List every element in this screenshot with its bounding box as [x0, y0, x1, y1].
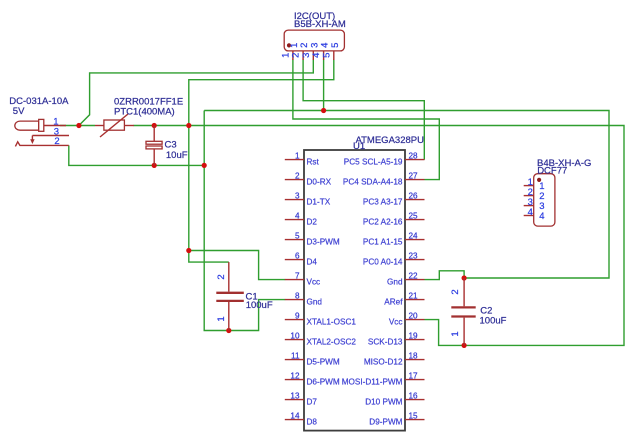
svg-text:5: 5: [295, 232, 300, 241]
U1 pin number 5: [295, 232, 300, 241]
U1 pin 27 stub (PC4 SDA-A4-18): [405, 179, 425, 181]
svg-text:15: 15: [409, 412, 419, 421]
junction VCC riser to U1 Vcc branch: [186, 248, 191, 253]
U1 pin number 13: [290, 392, 300, 401]
svg-text:D0-RX: D0-RX: [307, 178, 332, 187]
PTC1 value PTC1(400MA): [114, 106, 175, 117]
C2 pin number 2: [450, 289, 461, 294]
U1 pin label PC0 A0-14: [363, 258, 403, 267]
U1 pin number 16: [409, 392, 419, 401]
J3 inside pin number 4: [539, 211, 544, 222]
connector J2 I2C(OUT) B5B-XH-AM body: [284, 30, 344, 51]
IC U1 ATMEGA328PU body: [304, 150, 405, 431]
U1 pin label D9-PWM: [369, 418, 402, 427]
svg-text:24: 24: [409, 232, 419, 241]
svg-text:25: 25: [409, 212, 419, 221]
svg-text:1: 1: [216, 316, 227, 321]
U1 pin number 24: [409, 232, 419, 241]
J2 inside pin number 2: [299, 43, 310, 48]
svg-text:26: 26: [409, 192, 419, 201]
U1 pin 4 stub (D2): [285, 219, 304, 221]
U1 pin label Vcc: [307, 278, 321, 287]
J2 pin 1 stub: [292, 51, 294, 60]
wire net GND: I2C pin4 drop: [323, 60, 325, 111]
J3 pin 3 stub: [524, 205, 534, 207]
U1 pin 23 stub (PC0 A0-14): [405, 259, 425, 261]
U1 pin label Gnd: [387, 278, 403, 287]
U1 pin number 4: [295, 212, 300, 221]
svg-text:16: 16: [409, 392, 419, 401]
connector J3 B4B-XH-A-G DCF77 body: [534, 174, 555, 226]
svg-text:100uF: 100uF: [246, 300, 273, 311]
C3 value 10uF: [166, 150, 188, 161]
U1 pin 6 stub (D4): [285, 259, 304, 261]
J2 label I2C(OUT): [294, 11, 335, 22]
U1 pin label SCK-D13: [368, 338, 403, 347]
svg-text:14: 14: [290, 412, 300, 421]
junction GND bottom line at riser: [202, 163, 207, 168]
svg-text:D2: D2: [307, 218, 318, 227]
J3 inside pin number 3: [539, 201, 544, 212]
C3 label: [165, 140, 177, 151]
svg-text:13: 13: [290, 392, 300, 401]
svg-text:18: 18: [409, 352, 419, 361]
wire net 5V riser to I2C pin3: [79, 60, 313, 126]
U1 pin number 2: [295, 172, 300, 181]
U1 label ATMEGA328PU: [356, 135, 425, 146]
U1 pin label PC1 A1-15: [363, 238, 403, 247]
U1 pin number 17: [409, 372, 419, 381]
svg-text:D10 PWM: D10 PWM: [365, 398, 402, 407]
U1 pin label D7: [307, 398, 318, 407]
svg-text:Rst: Rst: [307, 158, 320, 167]
J3 outside pin number 1: [528, 177, 533, 188]
J2 outside pin number 1: [280, 53, 291, 58]
U1 pin 8 stub (Gnd): [285, 299, 304, 301]
svg-text:D4: D4: [307, 258, 318, 267]
svg-text:D8: D8: [307, 418, 318, 427]
junction GND at C3 bottom: [152, 163, 157, 168]
U1 pin 18 stub (MISO-D12): [405, 359, 425, 361]
svg-text:D1-TX: D1-TX: [307, 198, 331, 207]
U1 pin label PC2 A2-16: [363, 218, 403, 227]
J3 outside pin number 2: [528, 187, 533, 198]
svg-text:1: 1: [450, 331, 461, 336]
U1 pin 25 stub (PC2 A2-16): [405, 219, 425, 221]
J1 pin number 3: [54, 127, 59, 138]
svg-text:D7: D7: [307, 398, 318, 407]
svg-text:DCF77: DCF77: [537, 166, 567, 177]
wire net VCC: I2C pin5 drop to riser x189 down to C1 pin2: [189, 60, 334, 263]
U1 pin label Gnd: [307, 298, 323, 307]
capacitor C2: [451, 278, 475, 345]
svg-text:10uF: 10uF: [166, 150, 188, 161]
svg-text:1: 1: [295, 152, 300, 161]
junction GND at C2 pin2: [462, 275, 467, 280]
J3 pin 2 stub: [524, 195, 534, 197]
svg-text:PC3 A3-17: PC3 A3-17: [363, 198, 403, 207]
svg-text:Vcc: Vcc: [307, 278, 321, 287]
svg-text:PC0 A0-14: PC0 A0-14: [363, 258, 403, 267]
svg-text:Vcc: Vcc: [389, 318, 403, 327]
svg-text:ATMEGA328PU: ATMEGA328PU: [356, 135, 425, 146]
J2 outside pin number 3: [301, 53, 312, 58]
junction 5V at jack pin1: [76, 123, 81, 128]
J2 outside pin number 4: [311, 53, 322, 58]
U1 pin 13 stub (D7): [285, 399, 304, 401]
connector J1 DC-031A-10A barrel jack: [15, 119, 69, 146]
U1 pin number 25: [409, 212, 419, 221]
U1 pin label PC4 SDA-A4-18: [343, 178, 403, 187]
U1 pin label PC3 A3-17: [363, 198, 403, 207]
J3 value DCF77: [537, 166, 567, 177]
svg-text:2: 2: [295, 172, 300, 181]
J2 pin 2 stub: [302, 51, 304, 60]
svg-text:23: 23: [409, 252, 419, 261]
svg-text:10: 10: [290, 332, 300, 341]
capacitor C1: [216, 262, 244, 330]
svg-text:PTC1(400MA): PTC1(400MA): [114, 106, 175, 117]
wire net 5V: jack pin1 to PTC left: [60, 125, 95, 127]
fuse PTC1 0ZRR0017FF1E: [95, 114, 134, 137]
U1 pin label D8: [307, 418, 318, 427]
junction VCC main line and riser: [186, 123, 191, 128]
svg-text:ARef: ARef: [384, 298, 403, 307]
svg-text:3: 3: [295, 192, 300, 201]
svg-text:4: 4: [528, 207, 533, 218]
U1 pin 26 stub (PC3 A3-17): [405, 199, 425, 201]
svg-text:12: 12: [290, 372, 300, 381]
J3 outside pin number 4: [528, 207, 533, 218]
J1 label DC-031A-10A: [9, 96, 69, 107]
svg-text:5: 5: [321, 53, 332, 58]
svg-text:27: 27: [409, 172, 419, 181]
svg-text:PC4 SDA-A4-18: PC4 SDA-A4-18: [343, 178, 403, 187]
U1 pin number 22: [409, 272, 419, 281]
junction GND at I2C pin4: [321, 108, 326, 113]
U1 pin number 27: [409, 172, 419, 181]
svg-text:100uF: 100uF: [480, 316, 507, 327]
svg-text:17: 17: [409, 372, 419, 381]
svg-text:8: 8: [295, 292, 300, 301]
svg-text:D5-PWM: D5-PWM: [307, 358, 340, 367]
U1 pin number 18: [409, 352, 419, 361]
U1 pin label D10 PWM: [365, 398, 402, 407]
U1 pin 7 stub (Vcc): [285, 279, 304, 281]
J2 outside pin number 2: [291, 53, 302, 58]
J2 pin 4 stub: [323, 51, 325, 60]
junction GND at C1 pin1: [226, 328, 231, 333]
J2 pin 3 stub: [312, 51, 314, 60]
J1 value 5V: [13, 106, 25, 117]
junction VCC at C3 top: [152, 123, 157, 128]
U1 pin label D3-PWM: [307, 238, 340, 247]
svg-text:SCK-D13: SCK-D13: [368, 338, 403, 347]
svg-text:C3: C3: [165, 140, 177, 151]
wire net SCL: I2C pin2 to U1 pin28: [303, 60, 424, 160]
U1 pin 21 stub (ARef): [405, 299, 425, 301]
C2 value 100uF: [480, 316, 507, 327]
svg-text:5: 5: [330, 43, 341, 48]
svg-text:Gnd: Gnd: [307, 298, 323, 307]
U1 pin label D5-PWM: [307, 358, 340, 367]
svg-text:7: 7: [295, 272, 300, 281]
U1 pin 12 stub (D6-PWM): [285, 379, 304, 381]
U1 pin number 23: [409, 252, 419, 261]
U1 pin 15 stub (D9-PWM): [405, 419, 425, 421]
U1 pin number 20: [409, 312, 419, 321]
U1 pin label ARef: [384, 298, 403, 307]
svg-text:2: 2: [216, 274, 227, 279]
U1 pin label Vcc: [389, 318, 403, 327]
U1 pin label D4: [307, 258, 318, 267]
svg-text:B5B-XH-AM: B5B-XH-AM: [294, 19, 346, 30]
U1 pin label D1-TX: [307, 198, 331, 207]
U1 refdes U1: [353, 141, 365, 152]
J3 inside pin number 1: [539, 181, 544, 192]
C2 pin number 1: [450, 331, 461, 336]
svg-text:21: 21: [409, 292, 419, 301]
svg-text:9: 9: [295, 312, 300, 321]
C2 label: [480, 306, 492, 317]
U1 pin number 10: [290, 332, 300, 341]
svg-text:PC2 A2-16: PC2 A2-16: [363, 218, 403, 227]
U1 pin 16 stub (D10 PWM): [405, 399, 425, 401]
svg-text:PC1 A1-15: PC1 A1-15: [363, 238, 403, 247]
U1 pin 3 stub (D1-TX): [285, 199, 304, 201]
U1 pin 10 stub (XTAL2-OSC2): [285, 339, 304, 341]
J2 inside pin number 3: [309, 43, 320, 48]
J3 pin 4 stub: [524, 215, 534, 217]
svg-text:22: 22: [409, 272, 419, 281]
U1 pin label D0-RX: [307, 178, 332, 187]
U1 pin number 12: [290, 372, 300, 381]
J2 outside pin number 5: [321, 53, 332, 58]
J3 outside pin number 3: [528, 197, 533, 208]
J1 pin number 1: [53, 117, 58, 128]
U1 pin 28 stub (PC5 SCL-A5-19): [405, 159, 425, 161]
svg-text:XTAL1-OSC1: XTAL1-OSC1: [307, 318, 357, 327]
svg-text:Gnd: Gnd: [387, 278, 403, 287]
svg-text:MISO-D12: MISO-D12: [364, 358, 403, 367]
svg-text:5V: 5V: [13, 106, 25, 117]
U1 pin number 6: [295, 252, 300, 261]
J2 inside pin number 5: [330, 43, 341, 48]
U1 pin label D6-PWM: [307, 378, 340, 387]
wire net SDA: I2C pin1 to U1 pin27: [293, 60, 439, 180]
svg-text:20: 20: [409, 312, 419, 321]
U1 pin 9 stub (XTAL1-OSC1): [285, 319, 304, 321]
U1 pin number 1: [295, 152, 300, 161]
U1 pin label MOSI-D11-PWM: [342, 378, 403, 387]
PTC1 label 0ZRR0017FF1E: [114, 96, 183, 107]
U1 pin 2 stub (D0-RX): [285, 179, 304, 181]
U1 pin 17 stub (MOSI-D11-PWM): [405, 379, 425, 381]
svg-text:2: 2: [450, 289, 461, 294]
U1 pin number 26: [409, 192, 419, 201]
wire net GND: riser x204 from top line down to C1 pin1 and U1 pin8: [204, 111, 285, 331]
U1 pin number 19: [409, 332, 419, 341]
svg-text:6: 6: [295, 252, 300, 261]
U1 pin number 9: [295, 312, 300, 321]
U1 pin label PC5 SCL-A5-19: [344, 158, 403, 167]
capacitor C3: [146, 126, 162, 166]
svg-text:4: 4: [539, 211, 544, 222]
J2 inside pin number 4: [320, 43, 331, 48]
U1 pin number 7: [295, 272, 300, 281]
U1 pin 11 stub (D5-PWM): [285, 359, 304, 361]
C1 value 100uF: [246, 300, 273, 311]
U1 pin label XTAL2-OSC2: [307, 338, 357, 347]
U1 pin number 28: [409, 152, 419, 161]
U1 pin number 21: [409, 292, 419, 301]
C1 pin number 1: [216, 316, 227, 321]
U1 pin number 8: [295, 292, 300, 301]
svg-text:D3-PWM: D3-PWM: [307, 238, 340, 247]
svg-text:2: 2: [54, 136, 59, 147]
svg-text:28: 28: [409, 152, 419, 161]
U1 pin 20 stub (Vcc): [405, 319, 425, 321]
svg-text:19: 19: [409, 332, 419, 341]
U1 pin number 11: [291, 352, 300, 361]
U1 pin 14 stub (D8): [285, 419, 304, 421]
U1 pin label MISO-D12: [364, 358, 403, 367]
svg-text:U1: U1: [353, 141, 365, 152]
wire net GND: jack pin2 down and along bottom to riser: [69, 145, 204, 165]
junction VCC at C2 pin1: [462, 343, 467, 348]
U1 pin 19 stub (SCK-D13): [405, 339, 425, 341]
C1 label: [246, 292, 258, 303]
J3 pin 1 stub: [524, 185, 534, 187]
wire net GND: top line to right riser down to C2 pin2: [204, 111, 609, 279]
U1 pin number 3: [295, 192, 300, 201]
U1 pin label D2: [307, 218, 318, 227]
svg-text:MOSI-D11-PWM: MOSI-D11-PWM: [342, 378, 403, 387]
wire net GND: jog from C2 pin2 to U1 pin22: [425, 271, 465, 280]
U1 pin 1 stub (Rst): [285, 159, 304, 161]
J2 pin 5 stub: [333, 51, 335, 60]
wire net VCC: PTC right along main line, right riser down to C2 pin1 line: [134, 126, 625, 346]
U1 pin number 14: [290, 412, 300, 421]
U1 pin label XTAL1-OSC1: [307, 318, 357, 327]
J3 label B4B-XH-A-G: [537, 158, 591, 169]
svg-text:4: 4: [295, 212, 300, 221]
J1 pin number 2: [54, 136, 59, 147]
U1 pin 5 stub (D3-PWM): [285, 239, 304, 241]
C1 pin number 2: [216, 274, 227, 279]
svg-text:D9-PWM: D9-PWM: [369, 418, 402, 427]
J2 inside pin number 1: [289, 43, 300, 48]
svg-text:XTAL2-OSC2: XTAL2-OSC2: [307, 338, 357, 347]
J3 inside pin number 2: [539, 191, 544, 202]
U1 pin 22 stub (Gnd): [405, 279, 425, 281]
svg-text:PC5 SCL-A5-19: PC5 SCL-A5-19: [344, 158, 403, 167]
U1 pin label Rst: [307, 158, 320, 167]
U1 pin 24 stub (PC1 A1-15): [405, 239, 425, 241]
U1 pin number 15: [409, 412, 419, 421]
wire net VCC: branch to U1 pin7 Vcc: [189, 251, 285, 280]
svg-text:D6-PWM: D6-PWM: [307, 378, 340, 387]
svg-text:11: 11: [291, 352, 300, 361]
J2 value B5B-XH-AM: [294, 19, 346, 30]
